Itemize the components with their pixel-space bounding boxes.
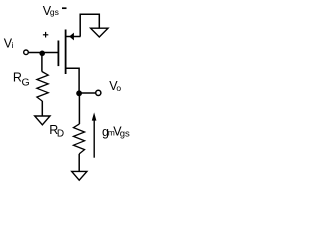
svg-text:i: i <box>12 40 14 50</box>
svg-text:gs: gs <box>50 7 59 17</box>
output terminal Vo <box>96 90 101 95</box>
label RG <box>13 71 30 89</box>
transistor gate bar <box>57 41 59 67</box>
resistor RD <box>73 124 84 154</box>
label Vo <box>109 79 121 93</box>
ground (top right) <box>91 28 108 37</box>
wire node to Vo terminal <box>79 92 95 94</box>
drain lead and wire down to output node <box>66 68 80 92</box>
wire RD to ground <box>78 154 80 171</box>
label Vi <box>4 36 14 50</box>
wire RG to ground <box>41 101 43 116</box>
current source arrow gmVgs (points up) <box>92 112 97 157</box>
wire Vi to gate <box>29 52 59 54</box>
label RD <box>49 123 64 140</box>
wire output node down to RD <box>78 93 80 124</box>
resistor RG <box>37 72 48 102</box>
ground (below RG) <box>35 116 50 125</box>
svg-text:gs: gs <box>120 129 130 140</box>
svg-text:o: o <box>116 83 121 93</box>
transistor channel bar <box>65 30 67 75</box>
node output junction <box>76 90 82 96</box>
label minus (Vgs polarity) <box>62 7 67 9</box>
wire junction down to RG <box>41 53 43 72</box>
ground (below RD) <box>72 171 87 180</box>
source lead <box>66 36 81 38</box>
label gm Vgs <box>102 125 130 140</box>
wire source to top ground <box>80 14 99 36</box>
label plus (Vgs polarity) <box>43 32 48 38</box>
label Vgs <box>43 4 59 18</box>
source arrow (points left) <box>69 33 74 41</box>
svg-text:D: D <box>57 129 64 140</box>
svg-text:G: G <box>22 77 30 89</box>
node gate junction <box>39 51 45 57</box>
input terminal Vi <box>24 50 29 55</box>
